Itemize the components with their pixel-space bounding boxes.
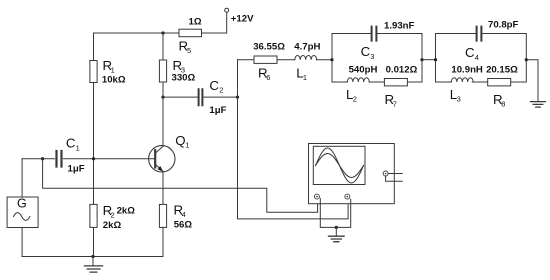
svg-text:C: C	[361, 44, 371, 59]
node tank2 right	[525, 58, 528, 61]
ground main	[84, 257, 102, 273]
power +12V	[202, 8, 255, 33]
capacitor C4	[465, 19, 519, 62]
svg-text:36.55Ω: 36.55Ω	[253, 41, 285, 52]
wire tank1 frame	[332, 34, 422, 83]
resistor R6	[238, 41, 295, 82]
svg-text:1μF: 1μF	[68, 164, 85, 175]
node C2-R6 junction	[236, 96, 239, 99]
resistor R2	[90, 159, 135, 257]
svg-text:56Ω: 56Ω	[174, 219, 193, 230]
svg-text:10.9nH: 10.9nH	[451, 65, 483, 76]
svg-text:2kΩ: 2kΩ	[117, 206, 136, 217]
generator G	[7, 159, 38, 257]
oscilloscope	[309, 144, 395, 204]
svg-text:1: 1	[111, 65, 115, 74]
node scope ground junction	[335, 226, 338, 229]
svg-text:C: C	[465, 45, 475, 60]
svg-text:3: 3	[370, 52, 374, 61]
svg-text:2kΩ: 2kΩ	[103, 220, 122, 231]
svg-text:2: 2	[353, 94, 357, 103]
wire scope terminals to ground bar	[320, 199, 350, 228]
svg-text:1μF: 1μF	[209, 105, 226, 116]
wire tank1-tank2 link	[422, 59, 436, 61]
capacitor C1	[22, 136, 155, 175]
svg-text:10kΩ: 10kΩ	[102, 75, 126, 86]
svg-text:1.93nF: 1.93nF	[384, 21, 415, 32]
node tank1 right	[420, 58, 423, 61]
svg-text:+12V: +12V	[231, 13, 254, 24]
ground scope	[329, 227, 345, 241]
resistor R4	[159, 203, 192, 257]
inductor L1	[294, 41, 332, 82]
svg-text:1: 1	[76, 143, 80, 152]
inductor L2	[346, 65, 377, 104]
resistor R8	[486, 65, 518, 109]
wire top rail	[94, 32, 180, 34]
capacitor C3	[361, 21, 415, 61]
node base junction	[92, 157, 95, 160]
terminal scope right connector	[383, 171, 402, 181]
svg-text:540pH: 540pH	[349, 65, 378, 76]
svg-text:4: 4	[475, 53, 479, 62]
transistor Q1	[149, 97, 190, 204]
svg-text:70.8pF: 70.8pF	[488, 19, 519, 30]
svg-text:2: 2	[219, 86, 223, 95]
wire tank2 frame	[436, 34, 527, 83]
resistor R5	[179, 17, 202, 55]
terminal scope B	[345, 194, 350, 199]
wire bottom ground rail	[22, 256, 162, 258]
wire tank2 to ground	[526, 60, 538, 102]
node R3 top junction	[161, 31, 164, 34]
node tank2 left	[434, 58, 437, 61]
svg-text:1: 1	[303, 73, 307, 82]
svg-text:3: 3	[457, 94, 461, 103]
svg-text:20.15Ω: 20.15Ω	[486, 65, 518, 76]
svg-text:1Ω: 1Ω	[189, 17, 202, 28]
svg-text:1: 1	[185, 140, 189, 149]
wire input to scope terminal A	[43, 159, 318, 213]
svg-text:C: C	[66, 136, 76, 151]
node ground junction	[91, 255, 94, 258]
resistor R1	[90, 33, 126, 159]
svg-text:7: 7	[393, 100, 397, 109]
terminal scope A	[314, 194, 319, 199]
svg-text:C: C	[209, 78, 219, 93]
svg-text:G: G	[17, 197, 27, 211]
svg-text:4: 4	[182, 210, 186, 219]
svg-text:0.012Ω: 0.012Ω	[386, 65, 418, 76]
inductor L3	[450, 65, 483, 104]
svg-text:Q: Q	[175, 133, 185, 148]
capacitor C2	[163, 78, 238, 116]
wire C2 node to scope terminal B	[238, 60, 349, 219]
svg-text:4.7pH: 4.7pH	[294, 41, 320, 52]
svg-text:330Ω: 330Ω	[172, 73, 196, 84]
svg-text:5: 5	[187, 46, 191, 55]
resistor R7	[384, 65, 417, 109]
svg-text:8: 8	[501, 100, 505, 109]
node tank1 left	[330, 58, 333, 61]
svg-text:6: 6	[266, 73, 270, 82]
node collector junction	[161, 96, 164, 99]
node input junction	[41, 157, 44, 160]
svg-text:2: 2	[111, 211, 115, 220]
resistor R3	[159, 33, 195, 97]
ground right	[531, 102, 546, 108]
